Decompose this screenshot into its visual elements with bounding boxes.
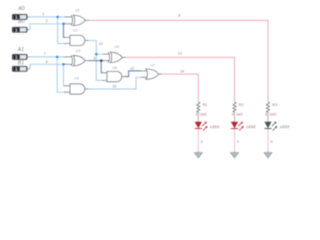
svg-text:LED3: LED3 xyxy=(280,125,290,129)
svg-text:15: 15 xyxy=(112,84,116,88)
svg-text:LED1: LED1 xyxy=(210,125,219,129)
svg-text:6: 6 xyxy=(46,60,48,64)
svg-text:9: 9 xyxy=(93,56,95,60)
svg-text:U6: U6 xyxy=(112,66,117,70)
svg-text:10: 10 xyxy=(99,42,103,46)
svg-text:2: 2 xyxy=(46,19,48,23)
svg-text:5: 5 xyxy=(265,112,267,116)
svg-text:R1: R1 xyxy=(203,103,208,107)
svg-text:U4: U4 xyxy=(74,76,79,80)
svg-text:0: 0 xyxy=(270,140,272,144)
svg-text:0: 0 xyxy=(201,140,203,144)
svg-text:1kΩ: 1kΩ xyxy=(200,112,207,116)
svg-text:8: 8 xyxy=(178,13,180,17)
svg-text:R3: R3 xyxy=(272,103,277,107)
svg-text:B0: B0 xyxy=(18,19,24,25)
svg-text:U5: U5 xyxy=(114,45,119,49)
svg-text:A0: A0 xyxy=(17,6,24,12)
svg-text:3: 3 xyxy=(195,112,197,116)
svg-text:14: 14 xyxy=(180,70,184,74)
svg-text:4: 4 xyxy=(232,112,234,116)
svg-text:LED2: LED2 xyxy=(247,125,256,129)
svg-text:7: 7 xyxy=(44,52,46,56)
svg-text:U3: U3 xyxy=(76,49,81,53)
svg-text:U2: U2 xyxy=(73,28,78,32)
svg-text:U7: U7 xyxy=(151,63,156,67)
svg-text:13: 13 xyxy=(178,52,182,56)
svg-text:12: 12 xyxy=(130,66,134,70)
svg-text:0: 0 xyxy=(237,140,239,144)
svg-text:1kΩ: 1kΩ xyxy=(270,112,277,116)
svg-text:1: 1 xyxy=(42,12,44,16)
svg-text:1kΩ: 1kΩ xyxy=(236,112,243,116)
svg-text:A1: A1 xyxy=(17,47,24,53)
svg-text:R2: R2 xyxy=(239,103,244,107)
svg-text:U1: U1 xyxy=(75,8,80,12)
svg-text:B1: B1 xyxy=(18,61,24,67)
